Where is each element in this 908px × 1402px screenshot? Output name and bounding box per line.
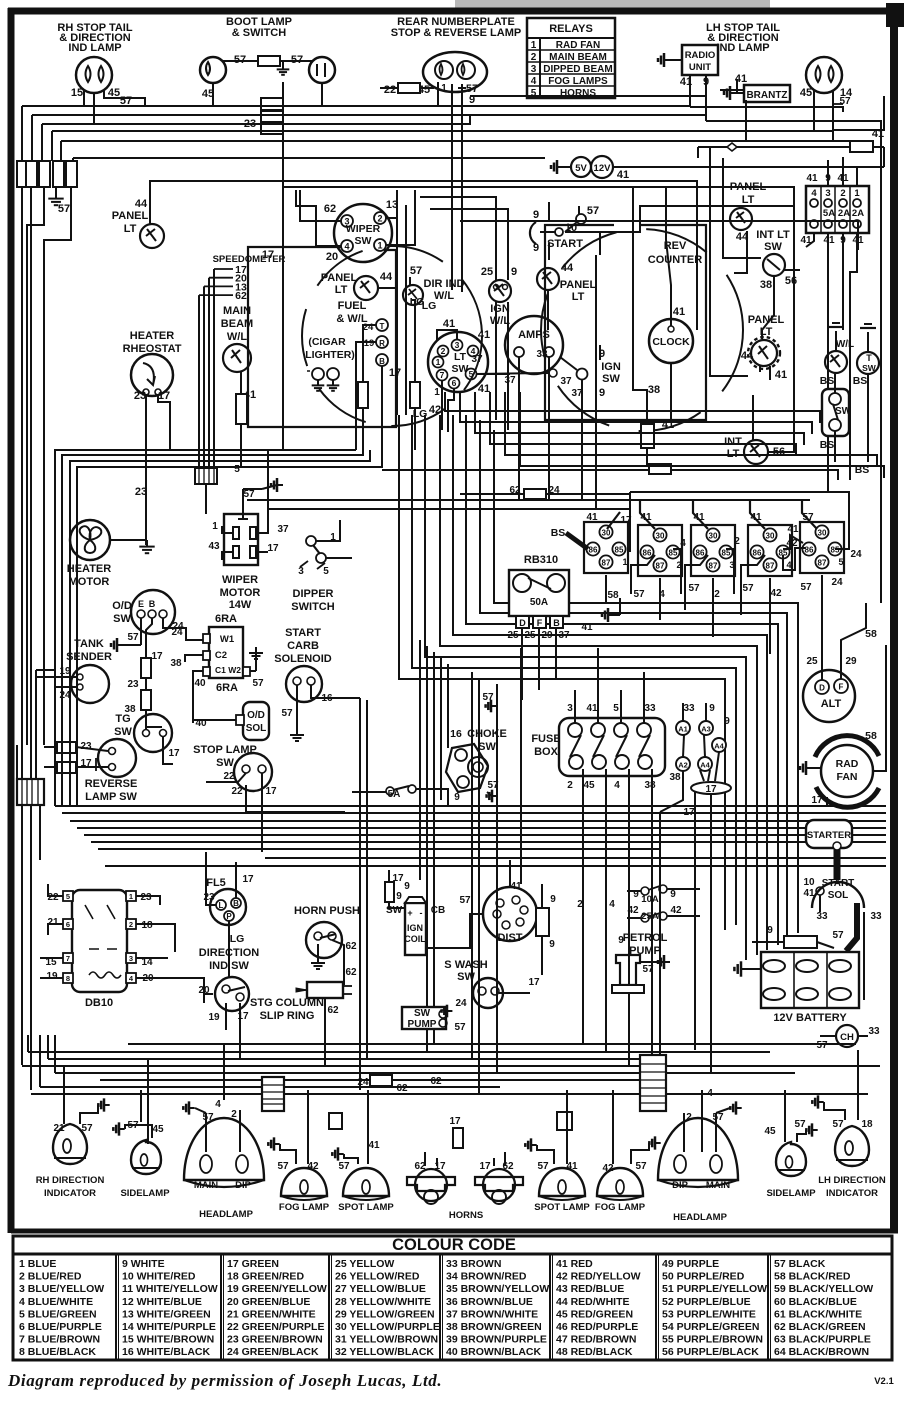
wire fuse block feeds bbox=[827, 160, 829, 186]
svg-text:CLOCK: CLOCK bbox=[652, 336, 690, 348]
svg-text:9: 9 bbox=[549, 939, 555, 950]
svg-text:50A: 50A bbox=[530, 597, 548, 608]
ground spot left bbox=[338, 1153, 344, 1155]
svg-text:41: 41 bbox=[662, 419, 674, 431]
svg-text:45: 45 bbox=[583, 780, 595, 791]
svg-text:18: 18 bbox=[861, 1119, 873, 1130]
wire speedo drops bbox=[299, 190, 301, 221]
resistor 9 feed vertical bbox=[536, 908, 549, 936]
lamp spot lamp left bbox=[343, 1168, 389, 1196]
svg-text:4: 4 bbox=[707, 1088, 713, 1099]
svg-text:24: 24 bbox=[850, 549, 862, 560]
svg-text:ALT: ALT bbox=[821, 698, 842, 710]
svg-text:26 YELLOW/RED: 26 YELLOW/RED bbox=[335, 1271, 420, 1283]
svg-text:9: 9 bbox=[404, 881, 410, 892]
ground 6RA bbox=[255, 647, 257, 653]
svg-text:Diagram reproduced by permissi: Diagram reproduced by permission of Jose… bbox=[7, 1371, 442, 1390]
svg-text:START: START bbox=[547, 238, 583, 250]
svg-text:2: 2 bbox=[129, 920, 133, 929]
lamp panel LT mid bbox=[537, 268, 559, 290]
svg-text:57: 57 bbox=[277, 1161, 289, 1172]
svg-text:33: 33 bbox=[644, 703, 656, 714]
svg-text:17: 17 bbox=[168, 748, 180, 759]
svg-text:29: 29 bbox=[845, 656, 857, 667]
svg-text:7 BLUE/BROWN: 7 BLUE/BROWN bbox=[19, 1334, 100, 1346]
svg-text:9: 9 bbox=[396, 891, 402, 902]
svg-text:4: 4 bbox=[811, 188, 817, 199]
svg-text:4 BLUE/WHITE: 4 BLUE/WHITE bbox=[19, 1296, 93, 1308]
connector block bottom centre-right bbox=[640, 1055, 666, 1111]
svg-text:W/L: W/L bbox=[434, 290, 454, 302]
svg-text:30: 30 bbox=[602, 529, 611, 538]
svg-text:9: 9 bbox=[511, 266, 517, 278]
svg-text:2: 2 bbox=[734, 536, 740, 547]
svg-text:DIST: DIST bbox=[497, 932, 522, 944]
svg-text:1: 1 bbox=[854, 188, 860, 199]
svg-text:57: 57 bbox=[587, 205, 599, 217]
wire relay 5 leads bbox=[802, 500, 817, 529]
svg-text:SIDELAMP: SIDELAMP bbox=[766, 1188, 816, 1199]
svg-text:5: 5 bbox=[323, 566, 329, 577]
wire main beam wl lead bbox=[240, 371, 242, 394]
resistor inline top right bbox=[850, 141, 873, 152]
svg-text:R: R bbox=[379, 339, 385, 348]
svg-text:17: 17 bbox=[479, 1161, 491, 1172]
svg-text:FUSE: FUSE bbox=[531, 733, 560, 745]
svg-text:W/L: W/L bbox=[836, 339, 854, 350]
ground brantz bbox=[730, 92, 736, 94]
wire rb310 leads bbox=[521, 628, 523, 700]
svg-text:17: 17 bbox=[158, 390, 170, 402]
svg-text:HORNS: HORNS bbox=[449, 1210, 483, 1221]
svg-text:DIR IND: DIR IND bbox=[424, 278, 465, 290]
svg-text:INT: INT bbox=[724, 436, 742, 448]
svg-text:41: 41 bbox=[750, 512, 762, 523]
svg-text:V2.1: V2.1 bbox=[874, 1376, 894, 1387]
instrument dial speedometer arc bbox=[302, 246, 482, 426]
svg-text:57: 57 bbox=[800, 582, 812, 593]
svg-text:44 RED/WHITE: 44 RED/WHITE bbox=[556, 1296, 630, 1308]
svg-text:B: B bbox=[379, 357, 385, 366]
svg-text:37: 37 bbox=[560, 376, 572, 387]
motor wiper motor 14W bbox=[224, 514, 258, 565]
svg-text:43 RED/BLUE: 43 RED/BLUE bbox=[556, 1283, 624, 1295]
svg-text:41: 41 bbox=[693, 512, 705, 523]
svg-text:3: 3 bbox=[825, 188, 830, 199]
relay 5 bbox=[800, 522, 844, 573]
svg-text:MAIN: MAIN bbox=[194, 1180, 218, 1191]
wire rh indicator leads bbox=[63, 1065, 65, 1124]
svg-text:4: 4 bbox=[609, 899, 615, 910]
svg-text:3 BLUE/YELLOW: 3 BLUE/YELLOW bbox=[19, 1283, 104, 1295]
svg-text:54 PURPLE/GREEN: 54 PURPLE/GREEN bbox=[662, 1321, 759, 1333]
wire brantz leads bbox=[736, 79, 738, 93]
svg-text:22: 22 bbox=[384, 84, 396, 96]
svg-text:9: 9 bbox=[533, 242, 539, 254]
svg-text:46 RED/PURPLE: 46 RED/PURPLE bbox=[556, 1321, 638, 1333]
wire fl5 leads bbox=[206, 852, 216, 905]
wire left harness bundle bbox=[83, 90, 85, 106]
svg-text:12V BATTERY: 12V BATTERY bbox=[773, 1012, 847, 1024]
svg-text:27 YELLOW/BLUE: 27 YELLOW/BLUE bbox=[335, 1283, 426, 1295]
wire tank sender leads bbox=[36, 676, 77, 678]
svg-text:FL5: FL5 bbox=[206, 877, 226, 889]
svg-text:AMPS: AMPS bbox=[518, 329, 550, 341]
relay 1 bbox=[584, 522, 628, 573]
svg-text:9 WHITE: 9 WHITE bbox=[122, 1258, 165, 1270]
svg-text:B: B bbox=[149, 599, 156, 609]
wire horn push lead bbox=[332, 940, 344, 985]
svg-text:42 RED/YELLOW: 42 RED/YELLOW bbox=[556, 1271, 641, 1283]
instrument case speedometer box bbox=[248, 247, 396, 427]
svg-text:23: 23 bbox=[80, 741, 92, 752]
svg-text:57: 57 bbox=[794, 1119, 806, 1130]
svg-text:15 WHITE/BROWN: 15 WHITE/BROWN bbox=[122, 1334, 214, 1346]
svg-text:SW: SW bbox=[414, 1008, 431, 1019]
wire horns leads bbox=[424, 1152, 426, 1166]
wire db10 leads bbox=[48, 884, 63, 896]
solenoid O/D SOL bbox=[243, 702, 269, 740]
svg-text:6 BLUE/PURPLE: 6 BLUE/PURPLE bbox=[19, 1321, 102, 1333]
svg-text:41: 41 bbox=[586, 703, 598, 714]
ground fog right bbox=[655, 1142, 661, 1144]
svg-text:CH: CH bbox=[840, 1032, 854, 1043]
svg-text:38 BROWN/GREEN: 38 BROWN/GREEN bbox=[446, 1321, 542, 1333]
svg-text:SPOT LAMP: SPOT LAMP bbox=[534, 1202, 590, 1213]
svg-text:37: 37 bbox=[558, 630, 570, 641]
svg-text:2A: 2A bbox=[838, 208, 850, 219]
svg-text:S WASH: S WASH bbox=[444, 959, 487, 971]
starter STARTER bbox=[806, 820, 852, 848]
svg-text:6: 6 bbox=[66, 920, 70, 929]
svg-text:5: 5 bbox=[66, 892, 70, 901]
svg-text:5: 5 bbox=[234, 464, 240, 475]
svg-text:64 BLACK/BROWN: 64 BLACK/BROWN bbox=[774, 1346, 869, 1358]
switch boot switch bbox=[309, 57, 335, 83]
wire int lt sw leads bbox=[773, 276, 775, 292]
svg-text:UNIT: UNIT bbox=[689, 62, 711, 73]
svg-text:28 YELLOW/WHITE: 28 YELLOW/WHITE bbox=[335, 1296, 431, 1308]
wire heater motor lead bbox=[110, 539, 147, 541]
svg-text:41: 41 bbox=[640, 512, 652, 523]
svg-text:9: 9 bbox=[550, 894, 556, 905]
svg-text:STARTER: STARTER bbox=[807, 830, 851, 841]
svg-text:41: 41 bbox=[510, 881, 522, 892]
svg-text:SENDER: SENDER bbox=[66, 651, 112, 663]
svg-text:SIDELAMP: SIDELAMP bbox=[120, 1188, 170, 1199]
wire RH lamp leads bbox=[93, 92, 95, 124]
relay DB10 bbox=[72, 890, 127, 992]
svg-text:A4: A4 bbox=[700, 761, 710, 770]
lamp sidelamp right bbox=[776, 1142, 806, 1176]
svg-text:33: 33 bbox=[536, 349, 548, 360]
svg-text:62: 62 bbox=[327, 1005, 339, 1016]
wire radio leads bbox=[689, 75, 691, 107]
svg-text:DIP: DIP bbox=[235, 1180, 252, 1191]
svg-text:INDICATOR: INDICATOR bbox=[44, 1188, 96, 1199]
wire coil hv lead bbox=[426, 914, 483, 948]
svg-text:45: 45 bbox=[152, 1124, 164, 1135]
svg-text:COUNTER: COUNTER bbox=[648, 254, 702, 266]
ground boot lamp bbox=[282, 64, 284, 69]
wire relay 3 leads bbox=[693, 500, 708, 529]
svg-text:MAIN: MAIN bbox=[223, 305, 251, 317]
lamp fog lamp right bbox=[597, 1168, 643, 1196]
svg-text:19: 19 bbox=[46, 971, 58, 982]
svg-text:HEATER: HEATER bbox=[130, 330, 174, 342]
svg-text:A4: A4 bbox=[714, 742, 724, 751]
svg-text:SW: SW bbox=[602, 373, 620, 385]
svg-text:W/L: W/L bbox=[227, 331, 247, 343]
svg-text:B: B bbox=[553, 618, 560, 628]
svg-text:42: 42 bbox=[786, 538, 798, 549]
ground headlamp left bbox=[189, 1107, 195, 1109]
svg-text:58: 58 bbox=[865, 628, 877, 640]
wire ign wl leads bbox=[494, 285, 499, 290]
lamp sidelamp left bbox=[131, 1140, 161, 1174]
svg-text:P: P bbox=[226, 912, 232, 921]
ground rh indicator bbox=[104, 1104, 110, 1106]
wire rad fan lead bbox=[873, 645, 886, 771]
svg-text:31 YELLOW/BROWN: 31 YELLOW/BROWN bbox=[335, 1334, 438, 1346]
svg-text:56 PURPLE/BLACK: 56 PURPLE/BLACK bbox=[662, 1346, 759, 1358]
resistor fuel line bbox=[358, 382, 368, 408]
svg-text:DIPPER: DIPPER bbox=[293, 588, 334, 600]
svg-text:F: F bbox=[839, 683, 844, 692]
svg-text:7: 7 bbox=[66, 954, 70, 963]
svg-text:SW: SW bbox=[835, 406, 852, 417]
svg-text:42: 42 bbox=[627, 905, 639, 916]
connector block 5-way mid bbox=[195, 468, 217, 484]
svg-text:5: 5 bbox=[613, 703, 619, 714]
svg-text:D: D bbox=[519, 618, 526, 628]
wire bs column bbox=[834, 374, 836, 393]
switch wiper SW bbox=[334, 204, 392, 262]
ground rad fan bbox=[806, 767, 812, 769]
svg-text:56: 56 bbox=[785, 275, 797, 287]
svg-text:87: 87 bbox=[818, 559, 827, 568]
svg-text:20: 20 bbox=[326, 251, 338, 263]
svg-text:57: 57 bbox=[832, 930, 844, 941]
svg-text:50 PURPLE/RED: 50 PURPLE/RED bbox=[662, 1271, 745, 1283]
svg-text:FOG LAMP: FOG LAMP bbox=[595, 1202, 646, 1213]
svg-text:W1: W1 bbox=[220, 634, 235, 645]
ground fog left bbox=[274, 1143, 280, 1145]
module BRANTZ bbox=[744, 85, 790, 102]
wire relay 1 leads bbox=[607, 512, 620, 529]
svg-text:57: 57 bbox=[642, 964, 654, 975]
svg-text:41: 41 bbox=[478, 329, 490, 341]
svg-text:D: D bbox=[819, 684, 825, 693]
wire left harness verticals bbox=[21, 187, 23, 343]
wire int lt leads bbox=[768, 451, 790, 453]
svg-text:57: 57 bbox=[537, 1161, 549, 1172]
svg-text:30: 30 bbox=[766, 532, 775, 541]
svg-text:16: 16 bbox=[450, 728, 462, 740]
svg-text:42: 42 bbox=[429, 404, 441, 416]
svg-text:BEAM: BEAM bbox=[221, 318, 253, 330]
svg-text:25: 25 bbox=[507, 630, 519, 641]
svg-text:87: 87 bbox=[656, 562, 665, 571]
svg-text:4: 4 bbox=[659, 589, 665, 600]
svg-text:L: L bbox=[219, 901, 224, 910]
svg-text:8: 8 bbox=[66, 974, 70, 983]
svg-text:MOTOR: MOTOR bbox=[69, 576, 110, 588]
wire headlamp left leads bbox=[205, 1113, 207, 1152]
svg-text:23: 23 bbox=[135, 486, 147, 498]
svg-text:2: 2 bbox=[714, 589, 720, 600]
svg-text:57: 57 bbox=[802, 512, 814, 523]
svg-text:FUEL: FUEL bbox=[338, 300, 367, 312]
svg-text:20 GREEN/BLUE: 20 GREEN/BLUE bbox=[227, 1296, 310, 1308]
svg-text:PUMP: PUMP bbox=[408, 1019, 437, 1030]
svg-text:5 BLUE/GREEN: 5 BLUE/GREEN bbox=[19, 1308, 97, 1320]
svg-text:17: 17 bbox=[811, 795, 823, 806]
svg-text:57: 57 bbox=[816, 1040, 828, 1051]
svg-text:41: 41 bbox=[478, 383, 490, 395]
svg-text:9: 9 bbox=[709, 703, 715, 714]
wire fog right leads bbox=[612, 1090, 614, 1164]
wire lt sw leads bbox=[437, 330, 457, 340]
ground lh indicator bbox=[818, 1101, 824, 1103]
svg-text:57: 57 bbox=[635, 1161, 647, 1172]
lamp W/L right bbox=[825, 351, 847, 373]
table colour code bbox=[13, 1236, 892, 1254]
svg-text:5A: 5A bbox=[823, 208, 835, 219]
wire sidelamp right leads bbox=[784, 1090, 786, 1142]
connector small bottom2 bbox=[557, 1112, 572, 1130]
svg-text:45: 45 bbox=[800, 87, 812, 99]
svg-text:38: 38 bbox=[648, 384, 660, 396]
svg-text:32 YELLOW/BLACK: 32 YELLOW/BLACK bbox=[335, 1346, 434, 1358]
svg-text:BOX: BOX bbox=[534, 746, 559, 758]
wire 6RA leads bbox=[185, 655, 203, 662]
svg-text:T: T bbox=[866, 353, 872, 363]
svg-text:13 WHITE/GREEN: 13 WHITE/GREEN bbox=[122, 1308, 211, 1320]
svg-text:17: 17 bbox=[620, 515, 632, 526]
svg-text:25: 25 bbox=[806, 656, 818, 667]
svg-text:63 BLACK/PURPLE: 63 BLACK/PURPLE bbox=[774, 1334, 871, 1346]
svg-text:1 BLUE: 1 BLUE bbox=[19, 1258, 56, 1270]
svg-text:57: 57 bbox=[839, 96, 851, 107]
svg-text:29 YELLOW/GREEN: 29 YELLOW/GREEN bbox=[335, 1308, 435, 1320]
svg-text:19: 19 bbox=[208, 1012, 220, 1023]
svg-text:6RA: 6RA bbox=[216, 682, 238, 694]
ground wiper motor bbox=[277, 484, 283, 486]
svg-text:IGN: IGN bbox=[490, 303, 510, 315]
svg-text:42: 42 bbox=[307, 1161, 319, 1172]
svg-text:2: 2 bbox=[840, 188, 845, 199]
svg-text:51 PURPLE/YELLOW: 51 PURPLE/YELLOW bbox=[662, 1283, 767, 1295]
wire dir ind wl lead bbox=[409, 277, 411, 285]
svg-text:4: 4 bbox=[786, 560, 791, 570]
svg-text:IGN: IGN bbox=[407, 923, 423, 933]
wire reverse lamp leads bbox=[44, 746, 57, 748]
svg-text:19 GREEN/YELLOW: 19 GREEN/YELLOW bbox=[227, 1283, 327, 1295]
wire headlamp right leads bbox=[683, 1113, 685, 1152]
svg-text:1: 1 bbox=[212, 521, 218, 532]
wire tg sw leads bbox=[145, 722, 147, 729]
svg-text:BS: BS bbox=[820, 439, 835, 451]
svg-text:62: 62 bbox=[345, 967, 357, 978]
svg-text:57: 57 bbox=[832, 1119, 844, 1130]
svg-text:60 BLACK/BLUE: 60 BLACK/BLUE bbox=[774, 1296, 857, 1308]
svg-text:62: 62 bbox=[430, 1076, 442, 1087]
ground spot right bbox=[531, 1144, 537, 1146]
svg-text:21: 21 bbox=[47, 917, 59, 928]
ground horn push bbox=[317, 957, 319, 963]
svg-text:HORN PUSH: HORN PUSH bbox=[294, 905, 360, 917]
fuse block top right 4-way bbox=[806, 186, 869, 233]
svg-text:38: 38 bbox=[760, 279, 772, 291]
svg-text:SPOT LAMP: SPOT LAMP bbox=[338, 1202, 394, 1213]
distributor DIST bbox=[483, 887, 537, 941]
wire numberplate leads bbox=[437, 82, 439, 106]
ground stabiliser bbox=[557, 166, 563, 168]
instrument dial rev counter arc bbox=[541, 229, 743, 431]
svg-text:42: 42 bbox=[670, 905, 682, 916]
svg-text:58 BLACK/RED: 58 BLACK/RED bbox=[774, 1271, 851, 1283]
lamp headlamp left bbox=[184, 1118, 264, 1180]
svg-text:SW: SW bbox=[478, 741, 496, 753]
svg-text:41: 41 bbox=[775, 369, 787, 381]
table relays legend bbox=[527, 18, 615, 98]
resistor vertical 41 mid bbox=[641, 424, 654, 448]
svg-text:RADIO: RADIO bbox=[685, 50, 716, 61]
svg-text:T: T bbox=[380, 322, 385, 331]
svg-text:PETROL: PETROL bbox=[623, 932, 668, 944]
ground heater motor bbox=[146, 540, 148, 547]
svg-text:18: 18 bbox=[141, 920, 153, 931]
lamp ign W/L bbox=[489, 280, 511, 302]
ground od sw bbox=[117, 644, 123, 646]
lamp RH direction indicator bbox=[53, 1124, 87, 1164]
switch column SW (BS) bbox=[822, 389, 849, 436]
svg-text:41: 41 bbox=[586, 512, 598, 523]
wire bottom buses bbox=[22, 1065, 880, 1067]
svg-text:57: 57 bbox=[281, 708, 293, 719]
svg-text:TG: TG bbox=[115, 713, 130, 725]
svg-text:23: 23 bbox=[140, 892, 152, 903]
connector blocks left harness bbox=[17, 161, 28, 187]
svg-text:21 GREEN/WHITE: 21 GREEN/WHITE bbox=[227, 1308, 316, 1320]
switch T SW bbox=[857, 352, 879, 374]
svg-text:HEADLAMP: HEADLAMP bbox=[673, 1212, 727, 1223]
wire s wash leads bbox=[499, 992, 530, 994]
ground left harness bbox=[55, 192, 57, 199]
svg-text:9: 9 bbox=[724, 716, 730, 727]
svg-text:87: 87 bbox=[602, 559, 611, 568]
svg-text:LT: LT bbox=[742, 194, 755, 206]
svg-text:RH DIRECTION: RH DIRECTION bbox=[36, 1175, 105, 1186]
svg-text:33: 33 bbox=[870, 911, 882, 922]
wire dist leads bbox=[509, 860, 511, 887]
ground cigar lighter bbox=[317, 380, 319, 385]
svg-text:40: 40 bbox=[194, 678, 206, 689]
switch light switch LT SW bbox=[428, 332, 488, 392]
svg-text:17: 17 bbox=[389, 367, 401, 379]
svg-text:E: E bbox=[138, 599, 144, 609]
svg-text:37: 37 bbox=[504, 375, 516, 386]
svg-text:41: 41 bbox=[443, 318, 455, 330]
svg-text:INT LT: INT LT bbox=[756, 229, 790, 241]
svg-text:41: 41 bbox=[673, 306, 685, 318]
svg-text:57: 57 bbox=[459, 895, 471, 906]
svg-text:HEATER: HEATER bbox=[67, 563, 111, 575]
svg-text:17: 17 bbox=[151, 651, 163, 662]
svg-text:3: 3 bbox=[298, 566, 304, 577]
svg-text:86: 86 bbox=[753, 549, 762, 558]
